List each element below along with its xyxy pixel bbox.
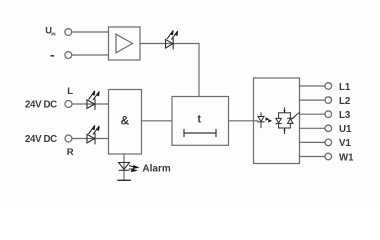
svg-text:&: & <box>121 114 130 128</box>
LED D4 (alarm) <box>119 163 130 171</box>
svg-text:R: R <box>67 147 74 158</box>
label minus <box>51 55 55 57</box>
LED D3 light arrows <box>89 125 99 134</box>
svg-text:Alarm: Alarm <box>142 163 170 174</box>
wire AND gate down to alarm end bar <box>123 154 125 180</box>
timer interval symbol <box>184 130 216 137</box>
terminal circle L1 <box>325 83 332 90</box>
svg-text:L1: L1 <box>339 82 351 93</box>
terminal circle 24V DC R <box>65 135 72 142</box>
output block (solid-state relay) box <box>254 78 300 164</box>
svg-text:V1: V1 <box>339 138 351 149</box>
svg-text:W1: W1 <box>339 152 354 163</box>
wire to terminal L2 <box>300 99 326 101</box>
wire to terminal V1 <box>300 141 326 143</box>
top stub arrowhead (into frame) <box>283 110 285 113</box>
terminal circle minus <box>65 52 72 59</box>
opto light arrows <box>266 117 273 122</box>
svg-text:U1: U1 <box>339 124 352 135</box>
terminal circle V1 <box>325 139 332 146</box>
LED D2 (L input) <box>87 99 95 109</box>
LED D3 (R input) <box>87 134 95 144</box>
terminal circle 24V DC L <box>65 101 72 108</box>
terminal circle L2 <box>325 97 332 104</box>
terminal circle W1 <box>325 153 332 160</box>
op-amp U1 triangle <box>116 34 133 53</box>
LED D2 light arrows <box>89 91 99 100</box>
bottom stub arrowhead (into frame) <box>283 128 285 131</box>
thyristor bridge frame <box>276 108 300 133</box>
svg-text:t: t <box>197 113 201 125</box>
timer box T1 <box>172 97 229 146</box>
wire AND gate to timer <box>142 120 173 122</box>
svg-text:24V DC: 24V DC <box>25 100 57 111</box>
terminal circle L3 <box>325 111 332 118</box>
LED D4 light arrows <box>129 166 138 172</box>
svg-text:L2: L2 <box>339 96 350 107</box>
gate curve <box>290 113 299 119</box>
wire minus to amplifier <box>72 54 109 56</box>
bottom stub <box>284 128 286 133</box>
wire to terminal L1 <box>300 85 326 87</box>
wire U_IN to amplifier <box>72 31 109 33</box>
wire corner down to timer box <box>198 44 200 97</box>
wire R terminal to AND gate <box>72 138 108 140</box>
wire timer to output block <box>229 120 254 122</box>
label U_IN <box>45 26 55 37</box>
wire to terminal L3 <box>300 113 326 115</box>
wire to terminal U1 <box>300 127 326 129</box>
terminal circle U1 <box>325 125 332 132</box>
wire L terminal to AND gate <box>72 103 108 105</box>
top stub <box>284 108 286 113</box>
wire amplifier to corner <box>140 43 199 45</box>
op-amp U1 box <box>109 27 141 60</box>
wire to terminal W1 <box>300 156 326 158</box>
LED D1 light arrows <box>167 30 177 39</box>
svg-text:24V DC: 24V DC <box>25 134 57 145</box>
LED D1 (power indicator) <box>166 39 174 49</box>
opto LED D5 inside output block <box>258 113 264 128</box>
left thyristor (down) <box>276 118 281 123</box>
AND gate U2 box <box>109 90 142 155</box>
alarm end bar <box>118 179 130 181</box>
svg-text:L3: L3 <box>339 110 351 121</box>
wire into output block to opto LED <box>254 120 258 122</box>
right thyristor (up) <box>288 119 293 124</box>
terminal circle U_IN <box>65 29 72 36</box>
svg-text:IN: IN <box>51 32 55 37</box>
svg-text:L: L <box>67 86 73 97</box>
